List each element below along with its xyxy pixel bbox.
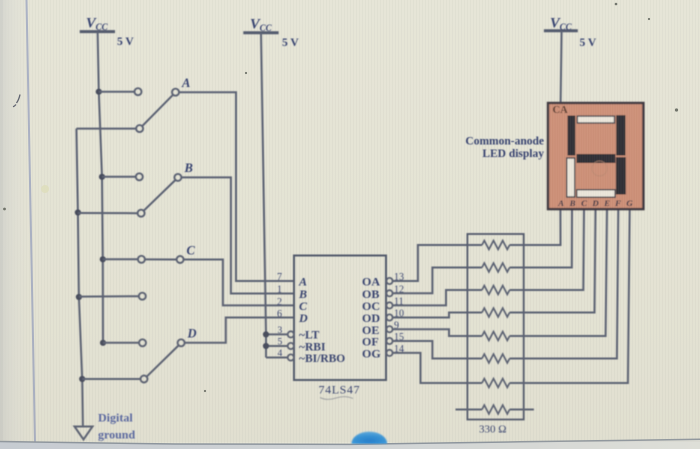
- pin bubble BI/RBO: [288, 354, 294, 360]
- Vcc symbol 1: [80, 16, 135, 49]
- segment C (lit): [616, 157, 626, 194]
- wire OB to R2: [393, 268, 468, 294]
- switch A: [76, 76, 190, 132]
- resistor R6: [467, 354, 523, 363]
- pin bubble RBI: [288, 343, 294, 349]
- resistor R3: [467, 286, 523, 295]
- resistor R8 unused: [456, 405, 534, 414]
- wire OA to R1: [393, 245, 468, 281]
- Vcc symbol 2: [243, 17, 299, 50]
- segment E (off): [567, 158, 575, 197]
- segment F (lit): [568, 116, 576, 156]
- IC input labels: [298, 275, 345, 366]
- switch D: [79, 327, 196, 383]
- wire R1 to segment A pin: [524, 209, 561, 245]
- wire OE to R5: [393, 329, 468, 336]
- wire OC to R3: [393, 290, 468, 305]
- wire OG to R7: [393, 353, 468, 383]
- display texture overlay: [549, 104, 642, 208]
- segment G (lit): [577, 154, 616, 163]
- pin bubble LT: [288, 331, 294, 337]
- display pin letters: [557, 198, 633, 208]
- smudge: [41, 185, 49, 193]
- resistor R4: [467, 308, 523, 317]
- label Common-anode LED display: [465, 136, 544, 161]
- input pin numbers: [277, 272, 283, 359]
- wire R4 to segment D pin: [524, 209, 596, 313]
- IC output labels: [362, 275, 381, 361]
- IC U1 74LS47 body: [294, 256, 386, 381]
- wire R6 to segment F pin: [524, 209, 619, 359]
- wire R2 to segment B pin: [524, 209, 572, 268]
- resistor R7: [467, 379, 523, 388]
- node RBI junction: [263, 343, 269, 349]
- resistor R2: [467, 263, 523, 272]
- wire R7 to segment G pin: [524, 209, 630, 383]
- blue blob: [352, 432, 388, 444]
- wire switch C to input C: [184, 260, 294, 306]
- ground symbol: [75, 427, 93, 440]
- label Digital ground: [98, 411, 135, 442]
- pen mark: [13, 95, 20, 107]
- ground rail: [76, 129, 83, 427]
- node LT junction: [263, 331, 269, 337]
- wire CA supply: [561, 31, 562, 103]
- wire switch D to input D: [185, 318, 294, 343]
- faint pen circle: [592, 161, 607, 176]
- wire switch A to input A: [179, 92, 294, 281]
- page edge line: [27, 0, 36, 443]
- output pin numbers: [394, 272, 404, 355]
- wire LT stub: [266, 333, 288, 335]
- segment B (lit): [616, 115, 625, 155]
- bottom table edge band: [0, 439, 700, 449]
- segment A (off): [577, 116, 614, 123]
- wire OF to R6: [393, 341, 468, 359]
- wire BI/RBO stub: [266, 357, 288, 359]
- resistor network box: [467, 234, 523, 420]
- segment D (off): [577, 190, 615, 198]
- resistor R5: [467, 332, 523, 341]
- Vcc symbol 3: [544, 16, 597, 50]
- wire R5 to segment E pin: [524, 209, 607, 336]
- switch B: [75, 161, 193, 217]
- switch C: [76, 244, 196, 301]
- wire RBI stub: [266, 345, 288, 347]
- output pin bubbles: [386, 278, 392, 356]
- resistor R1: [467, 241, 523, 250]
- wire OD to R4: [393, 313, 468, 318]
- wire Vcc rail 1: [98, 32, 103, 343]
- wire R3 to segment C pin: [524, 209, 584, 290]
- LED display U2 body: [548, 103, 643, 209]
- wire switch B to input B: [182, 177, 294, 293]
- wire Vcc rail 2: [261, 33, 266, 358]
